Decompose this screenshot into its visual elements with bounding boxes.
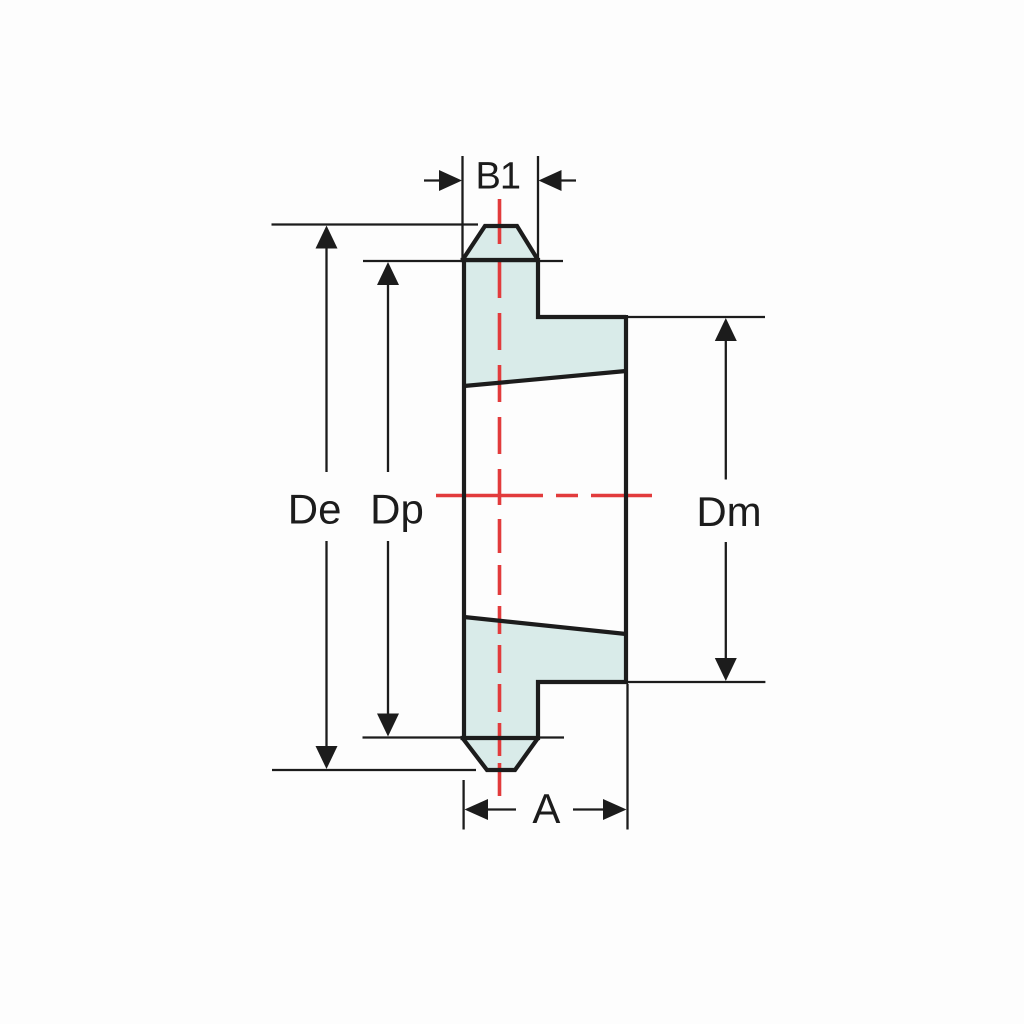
svg-text:B1: B1 [476,156,520,198]
svg-text:Dp: Dp [370,486,424,533]
svg-text:Dm: Dm [696,488,761,535]
svg-text:A: A [532,785,560,832]
svg-text:De: De [288,486,342,533]
